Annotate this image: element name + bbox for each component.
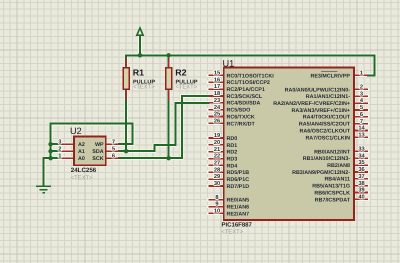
svg-text:RB7/ICSPDAT: RB7/ICSPDAT bbox=[315, 197, 351, 203]
svg-text:22: 22 bbox=[214, 154, 220, 160]
svg-text:19: 19 bbox=[214, 133, 220, 139]
svg-text:26: 26 bbox=[214, 118, 220, 124]
svg-text:<TEXT>: <TEXT> bbox=[222, 229, 244, 235]
svg-text:RD6/P1C: RD6/P1C bbox=[227, 177, 250, 183]
svg-text:RA1/AN1/C12IN1-: RA1/AN1/C12IN1- bbox=[306, 94, 350, 100]
svg-text:1: 1 bbox=[58, 153, 61, 159]
svg-text:RD2: RD2 bbox=[227, 150, 238, 156]
svg-text:RD0: RD0 bbox=[227, 136, 238, 142]
svg-text:40: 40 bbox=[358, 194, 364, 200]
svg-text:18: 18 bbox=[214, 91, 220, 97]
svg-text:29: 29 bbox=[214, 174, 220, 180]
svg-text:7: 7 bbox=[112, 139, 115, 145]
svg-text:RA6/OSC2/CLKOUT: RA6/OSC2/CLKOUT bbox=[300, 128, 351, 134]
svg-text:RC2/P1A/CCP1: RC2/P1A/CCP1 bbox=[227, 87, 265, 93]
svg-text:RA5/AN4/SS/C2OUT: RA5/AN4/SS/C2OUT bbox=[299, 122, 351, 128]
svg-text:28: 28 bbox=[214, 167, 220, 173]
svg-text:RC6/TX/CK: RC6/TX/CK bbox=[227, 114, 255, 120]
svg-text:14: 14 bbox=[358, 126, 365, 132]
svg-text:RD7/P1D: RD7/P1D bbox=[227, 184, 250, 190]
svg-text:U1: U1 bbox=[223, 59, 235, 69]
svg-text:23: 23 bbox=[214, 98, 220, 104]
svg-text:1: 1 bbox=[360, 71, 363, 77]
svg-text:16: 16 bbox=[214, 77, 220, 83]
svg-text:RC1/T1OSI/CCP2: RC1/T1OSI/CCP2 bbox=[227, 80, 270, 86]
svg-text:7: 7 bbox=[360, 119, 363, 125]
svg-text:39: 39 bbox=[358, 188, 364, 194]
svg-text:U2: U2 bbox=[70, 126, 82, 136]
svg-text:PIC16F887: PIC16F887 bbox=[222, 222, 253, 229]
svg-text:RB5/AN13/T1G: RB5/AN13/T1G bbox=[312, 184, 350, 190]
svg-text:10: 10 bbox=[214, 209, 220, 215]
svg-text:RA3/AN3/VREF+/C1IN+: RA3/AN3/VREF+/C1IN+ bbox=[291, 108, 350, 114]
svg-text:RB2/AN8: RB2/AN8 bbox=[327, 163, 350, 169]
svg-text:A0: A0 bbox=[78, 156, 85, 162]
svg-text:RD3: RD3 bbox=[227, 156, 238, 162]
svg-text:34: 34 bbox=[358, 153, 365, 159]
svg-text:8: 8 bbox=[215, 195, 218, 201]
svg-text:RA2/AN2/VREF-/CVREF/C2IN+: RA2/AN2/VREF-/CVREF/C2IN+ bbox=[273, 101, 350, 107]
svg-text:36: 36 bbox=[358, 167, 364, 173]
svg-text:9: 9 bbox=[215, 202, 218, 208]
svg-text:RC4/SDI/SDA: RC4/SDI/SDA bbox=[227, 101, 261, 107]
svg-text:RB4/AN11: RB4/AN11 bbox=[324, 177, 350, 183]
svg-text:RE2/AN7: RE2/AN7 bbox=[227, 211, 250, 217]
svg-text:SCK: SCK bbox=[92, 156, 103, 162]
svg-text:RA7/OSC1/CLKIN: RA7/OSC1/CLKIN bbox=[305, 135, 350, 141]
svg-text:WP: WP bbox=[95, 142, 104, 148]
svg-text:6: 6 bbox=[360, 112, 363, 118]
svg-text:27: 27 bbox=[214, 161, 220, 167]
svg-text:6: 6 bbox=[112, 153, 115, 159]
svg-text:3: 3 bbox=[360, 91, 363, 97]
svg-text:35: 35 bbox=[358, 160, 364, 166]
svg-text:RB6/ICSPCLK: RB6/ICSPCLK bbox=[314, 190, 350, 196]
svg-text:15: 15 bbox=[214, 71, 220, 77]
svg-text:R2: R2 bbox=[175, 67, 186, 77]
svg-text:5: 5 bbox=[360, 105, 363, 111]
svg-text:RA0/AN0/ULPWU/C12IN0-: RA0/AN0/ULPWU/C12IN0- bbox=[285, 87, 351, 93]
svg-text:RD5/P1B: RD5/P1B bbox=[227, 170, 250, 176]
svg-text:RB0/AN12/INT: RB0/AN12/INT bbox=[314, 149, 351, 155]
svg-text:RE1/AN6: RE1/AN6 bbox=[227, 204, 250, 210]
svg-text:RD4: RD4 bbox=[227, 163, 238, 169]
svg-text:RC5/SDO: RC5/SDO bbox=[227, 108, 251, 114]
svg-text:20: 20 bbox=[214, 140, 220, 146]
svg-text:33: 33 bbox=[358, 147, 364, 153]
svg-text:38: 38 bbox=[358, 181, 364, 187]
svg-text:RA4/T0CKI/C1OUT: RA4/T0CKI/C1OUT bbox=[303, 115, 351, 121]
svg-text:R1: R1 bbox=[133, 67, 144, 77]
svg-text:17: 17 bbox=[214, 84, 220, 90]
svg-text:25: 25 bbox=[214, 112, 220, 118]
svg-text:5: 5 bbox=[112, 146, 115, 152]
svg-text:2: 2 bbox=[360, 85, 363, 91]
svg-text:3: 3 bbox=[58, 139, 61, 145]
svg-text:24: 24 bbox=[214, 105, 221, 111]
svg-text:RC0/T1OSO/T1CKI: RC0/T1OSO/T1CKI bbox=[227, 73, 275, 79]
svg-text:30: 30 bbox=[214, 181, 220, 187]
svg-text:RE0/AN5: RE0/AN5 bbox=[227, 198, 250, 204]
svg-text:SDA: SDA bbox=[92, 149, 103, 155]
svg-text:A1: A1 bbox=[78, 149, 85, 155]
svg-text:24LC256: 24LC256 bbox=[71, 167, 97, 174]
svg-text:RC7/RX/DT: RC7/RX/DT bbox=[227, 121, 256, 127]
svg-text:RD1: RD1 bbox=[227, 143, 238, 149]
svg-text:RB3/AN9/PGM/C12IN2-: RB3/AN9/PGM/C12IN2- bbox=[292, 170, 350, 176]
svg-text:RC3/SCK/SCL: RC3/SCK/SCL bbox=[227, 94, 263, 100]
svg-text:<TEXT>: <TEXT> bbox=[71, 176, 93, 182]
svg-text:37: 37 bbox=[358, 174, 364, 180]
svg-text:<TEXT>: <TEXT> bbox=[176, 85, 198, 91]
svg-text:RE3/MCLR/VPP: RE3/MCLR/VPP bbox=[311, 73, 351, 79]
svg-text:RB1/AN10/C12IN3-: RB1/AN10/C12IN3- bbox=[303, 156, 350, 162]
svg-text:2: 2 bbox=[58, 146, 61, 152]
svg-text:<TEXT>: <TEXT> bbox=[133, 85, 155, 91]
svg-text:13: 13 bbox=[358, 132, 364, 138]
svg-text:A2: A2 bbox=[78, 142, 85, 148]
svg-text:21: 21 bbox=[214, 147, 220, 153]
